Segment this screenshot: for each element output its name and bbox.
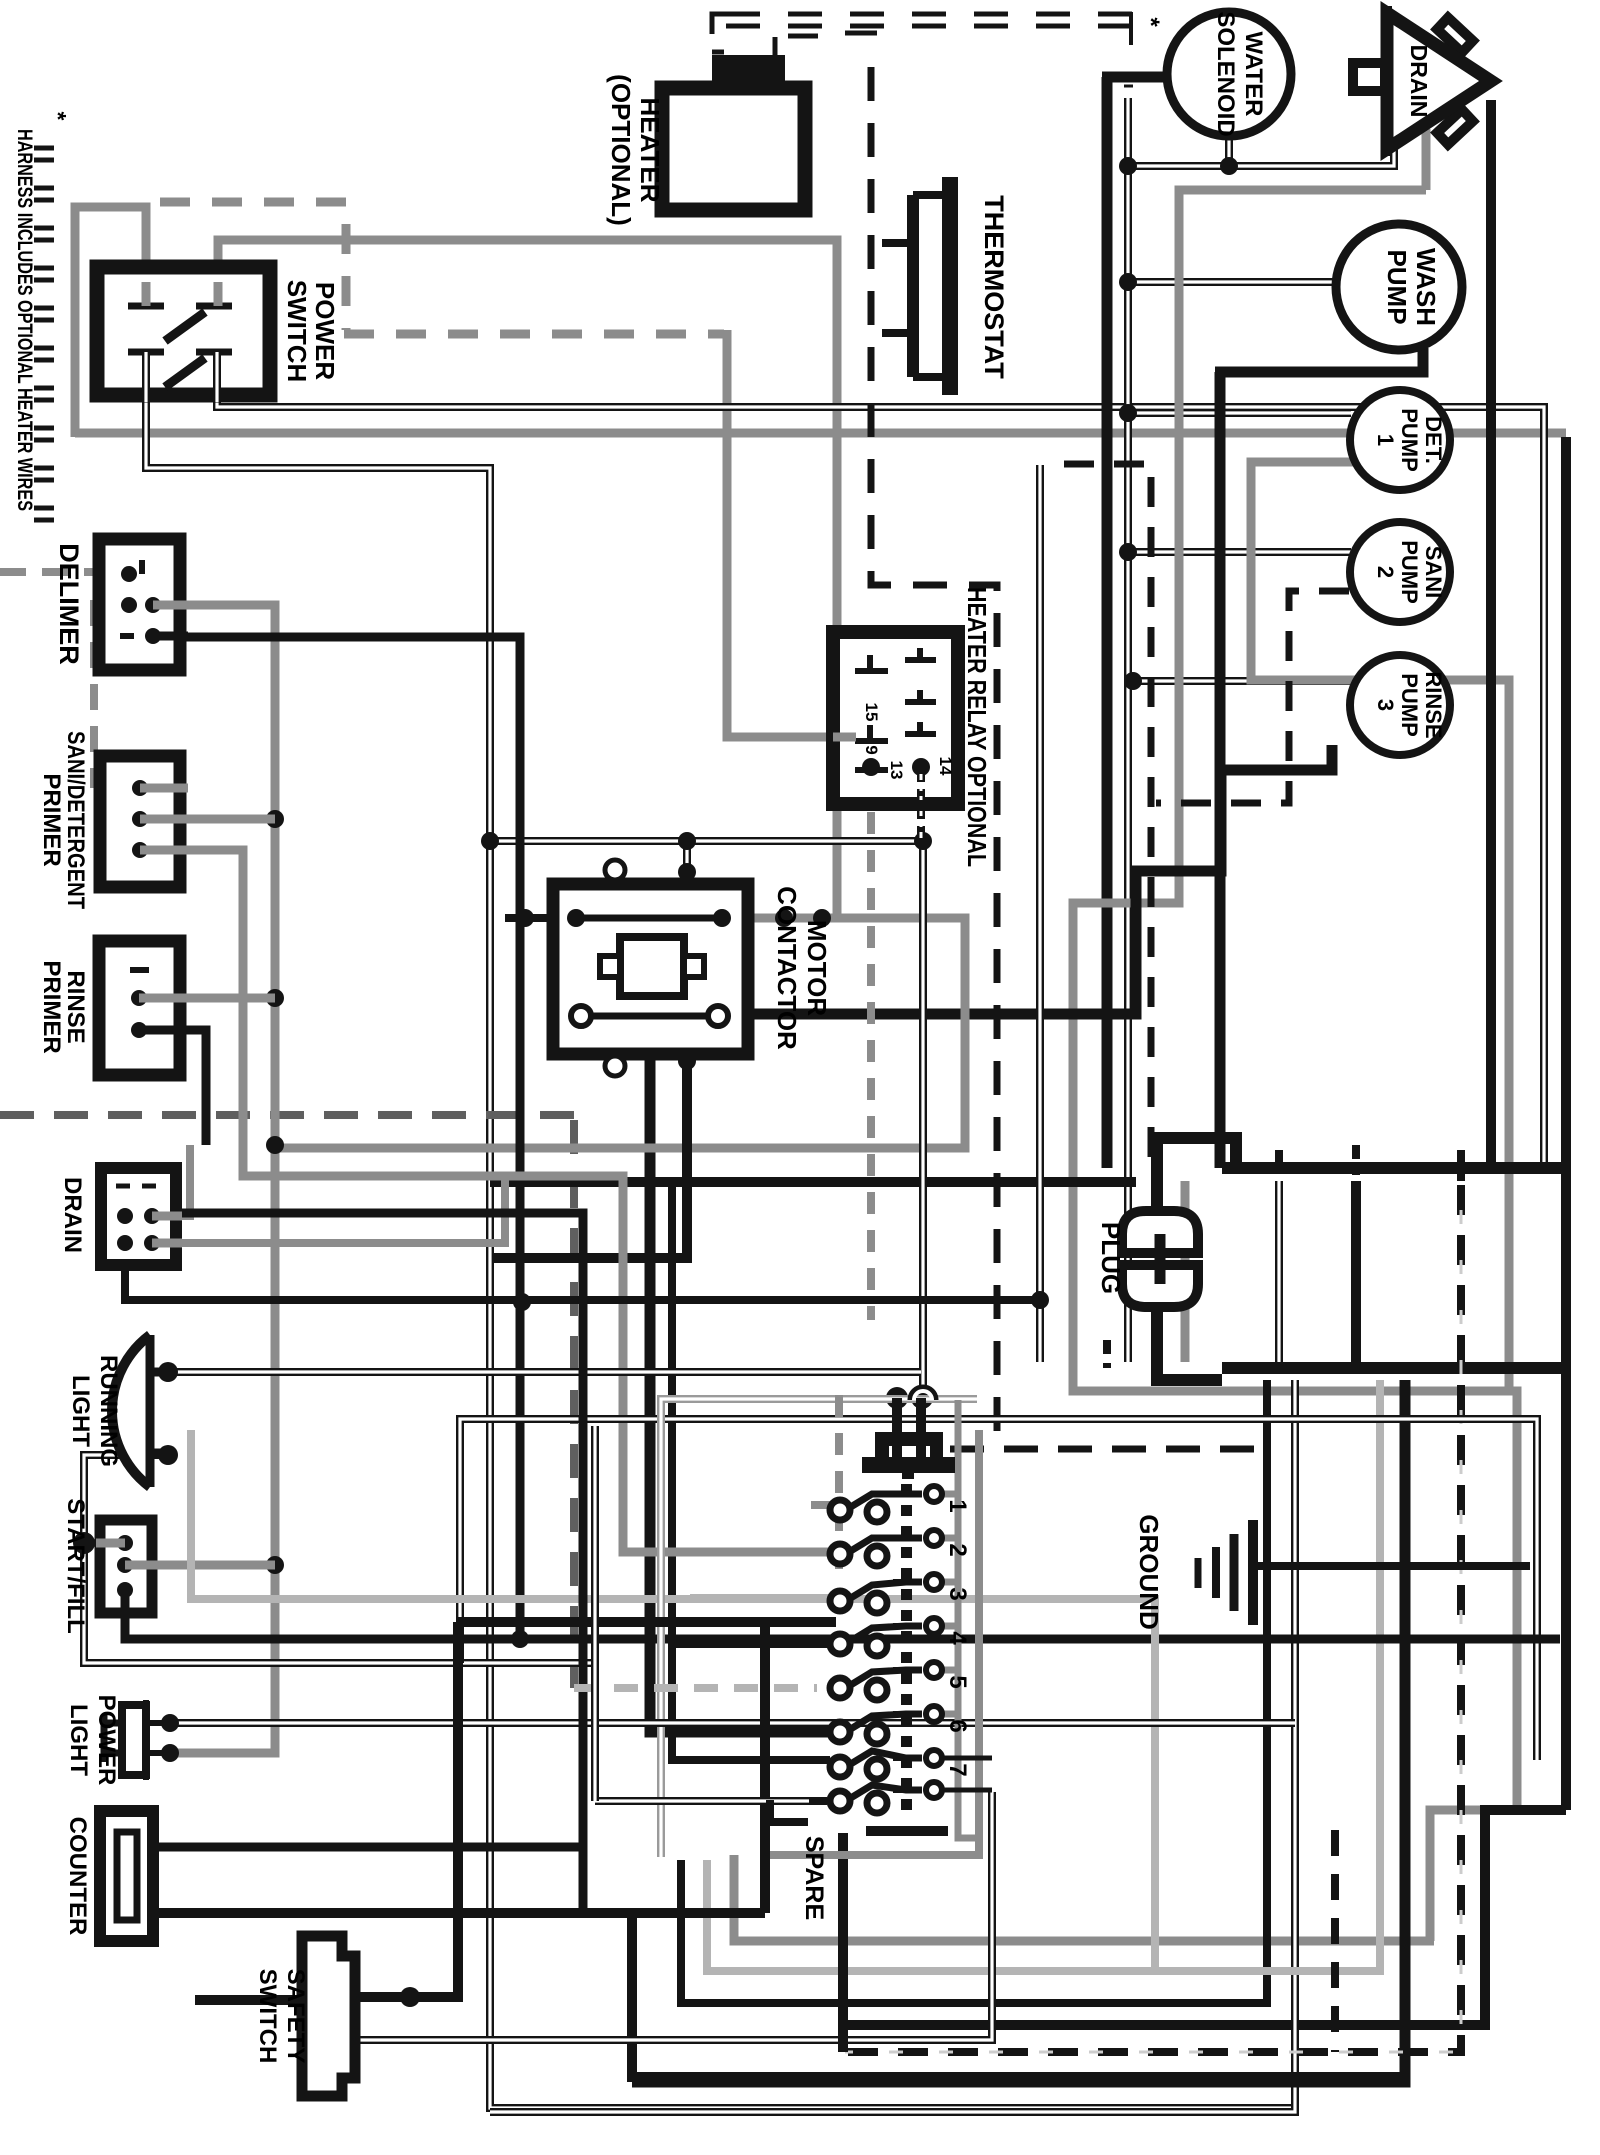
wire double contactor top stub: [683, 841, 691, 872]
wire gray bank taps: [941, 1494, 958, 1714]
timer contact bank: [911, 1388, 935, 1400]
wire double bank row8: [595, 1797, 827, 1805]
ground: [1248, 1520, 1258, 1625]
outline rect bank: [661, 1399, 977, 1857]
svg-text:SANI: SANI: [1421, 546, 1446, 599]
wire gray drain: [1422, 129, 1431, 190]
svg-text:THERMOSTAT: THERMOSTAT: [979, 195, 1009, 379]
svg-text:PRIMER: PRIMER: [38, 960, 65, 1053]
pin stub overlays: [96, 605, 188, 1565]
wire double switch right: [217, 352, 1544, 1168]
wire double x1295 nest: [490, 1380, 1295, 2112]
wire double x1040: [1036, 465, 1044, 1362]
wire med feeder y1178: [490, 1177, 1136, 1187]
svg-text:HEATER: HEATER: [635, 98, 665, 203]
svg-text:15: 15: [862, 703, 881, 722]
wire thick right outer: [838, 437, 1566, 2025]
bus ticks: [1107, 1150, 1461, 1368]
wire thick counter bottom: [153, 1913, 1405, 2077]
wire double x1279 between buses: [1275, 1181, 1283, 1362]
wire gray power-switch loop: [75, 207, 146, 437]
wire gray startfill pin2: [140, 1561, 275, 1570]
svg-text:RUNNING: RUNNING: [95, 1355, 122, 1467]
svg-text:SWITCH: SWITCH: [282, 280, 312, 383]
svg-text:7: 7: [944, 1763, 971, 1776]
drain: [1353, 6, 1491, 156]
wire thick trunk x1107: [1102, 77, 1167, 1168]
svg-text:RINSE: RINSE: [62, 970, 89, 1043]
wire gray sani pin2: [140, 815, 275, 824]
delimer connector: [99, 539, 180, 670]
wire med bank row7: [672, 1757, 830, 1764]
svg-text:3: 3: [944, 1587, 971, 1600]
wire thick bank left vert: [632, 1618, 765, 1913]
junction dot safety: [400, 1987, 420, 2007]
wire double branch det: [1128, 409, 1351, 417]
junction dot startfill: [73, 1532, 95, 1554]
wire gray contactor: [275, 918, 965, 1148]
junction dots contactor gray: [775, 909, 793, 927]
svg-text:2: 2: [1373, 566, 1398, 578]
svg-text:POWER: POWER: [93, 1695, 120, 1786]
svg-text:9: 9: [862, 745, 881, 754]
svg-text:DRAIN: DRAIN: [1406, 45, 1432, 118]
wire gray dashed power-switch box: [160, 202, 346, 330]
det pump 1: [1350, 390, 1450, 490]
wire med drainbox pin3: [125, 1265, 1040, 1300]
thermostat: [942, 177, 958, 395]
svg-text:START/FILL: START/FILL: [62, 1498, 89, 1634]
wire thick x843: [838, 1833, 848, 2052]
dashed harness middle line: [0, 1115, 574, 1688]
heater E1: [712, 55, 785, 88]
power light: [143, 1700, 149, 1780]
wire gray switch to thermostat: [218, 240, 837, 918]
svg-text:4: 4: [944, 1631, 971, 1645]
svg-text:PLUG: PLUG: [1096, 1222, 1126, 1294]
svg-text:SWITCH: SWITCH: [254, 1969, 281, 2064]
wire med drain y1213: [176, 1213, 583, 1913]
wire safety left stub: [195, 1995, 302, 2005]
wire thick x1405 nest: [632, 1380, 1405, 2082]
wire med bank row7 right: [941, 1758, 992, 1790]
svg-text:MOTOR: MOTOR: [802, 920, 832, 1017]
wire thick x1267 nest: [681, 1380, 1267, 2003]
svg-text:DELIMER: DELIMER: [54, 543, 84, 665]
motor contactor: [553, 884, 748, 1054]
rinse pump 3: [1350, 655, 1450, 755]
wire double powerlight pin1: [170, 1719, 1295, 1727]
dashed harness marks: [34, 148, 54, 520]
svg-text:14: 14: [936, 757, 955, 776]
running light: [112, 1335, 150, 1487]
svg-text:SAFETY: SAFETY: [282, 1969, 309, 2064]
junction dots y841: [678, 832, 696, 850]
wire gray x1380 nest: [707, 1380, 1380, 1971]
wire double switch lower-left: [146, 352, 1295, 2108]
wire double branch rinse: [1128, 677, 1351, 685]
svg-text:6: 6: [944, 1719, 971, 1732]
wire black delimer pin3: [153, 637, 520, 1639]
wire gray dash x871 below relay: [867, 812, 875, 1320]
wire double running light bottom: [84, 1455, 595, 1663]
wire gray drainbox pin1: [152, 1145, 190, 1216]
svg-text:*: *: [45, 112, 71, 121]
svg-text:2: 2: [944, 1543, 971, 1556]
wire dashed relay pin14: [917, 775, 925, 841]
junction dot drainbox: [1031, 1291, 1049, 1309]
svg-text:CONTACTOR: CONTACTOR: [772, 886, 802, 1050]
wire thick contactor bottom: [492, 1061, 687, 1258]
wire double safety 2: [355, 1792, 992, 2040]
svg-text:5: 5: [944, 1675, 971, 1688]
svg-text:PRIMER: PRIMER: [38, 773, 65, 866]
svg-text:3: 3: [1373, 699, 1398, 711]
svg-text:SANI/DETERGENT: SANI/DETERGENT: [62, 731, 89, 909]
wire gray delimer pin2: [153, 605, 275, 1753]
svg-text:PUMP: PUMP: [1397, 673, 1422, 737]
plug: [1122, 1211, 1198, 1253]
svg-text:*: *: [1137, 17, 1164, 27]
wire lightgray y1599: [191, 1430, 1155, 1971]
junction dots running light: [158, 1362, 178, 1382]
wire black rinse pin3: [139, 1030, 206, 1145]
wire gray x1185: [1181, 1181, 1190, 1362]
wire thick wash pump: [1215, 348, 1423, 372]
svg-text:POWER: POWER: [310, 282, 340, 380]
wire dashed sani pump: [1156, 591, 1349, 803]
wire gray powerlight pin2: [170, 1749, 275, 1758]
sani detergent primer: [100, 756, 180, 887]
safety switch: [302, 1936, 355, 2096]
plug top bus: [1157, 1138, 1570, 1211]
junction dot rl bottom: [158, 1445, 178, 1465]
svg-text:SOLENOID: SOLENOID: [1212, 11, 1239, 136]
dashed top harness line: [726, 14, 1132, 26]
svg-text:LIGHT: LIGHT: [67, 1375, 94, 1447]
wire double solenoid stem: [1225, 136, 1233, 166]
wire gray sani pin3: [140, 850, 832, 1552]
svg-text:1: 1: [1373, 434, 1398, 446]
wire double running light top: [168, 1368, 921, 1376]
heater pin marks: [712, 33, 877, 60]
svg-text:WASH: WASH: [1411, 248, 1441, 326]
svg-text:DRAIN: DRAIN: [59, 1177, 86, 1253]
svg-text:HARNESS INCLUDES OPTIONAL HEAT: HARNESS INCLUDES OPTIONAL HEATER WIRES: [13, 129, 36, 511]
wire thick counter top: [153, 1843, 583, 1852]
wire gray det pump: [1251, 462, 1509, 1391]
power switch S1: [97, 267, 270, 395]
wire black startfill pin3: [125, 1590, 1560, 1639]
wire dashed x1461 nest: [845, 1185, 1461, 2052]
wire med bank row4: [672, 1640, 834, 1648]
power switch pin stubs: [146, 282, 218, 306]
counter: [100, 1811, 153, 1941]
svg-text:13: 13: [887, 761, 906, 780]
wire contactor left stub: [505, 914, 556, 922]
svg-text:PUMP: PUMP: [1382, 249, 1412, 324]
wire ground: [1253, 1562, 1530, 1570]
svg-text:GROUND: GROUND: [1134, 1514, 1164, 1630]
svg-text:HEATER RELAY OPTIONAL: HEATER RELAY OPTIONAL: [962, 587, 992, 867]
wire gray startfill pin1: [84, 1539, 125, 1547]
heater relay: [833, 632, 958, 804]
wire thick rinse pump: [650, 745, 1332, 1732]
svg-text:LIGHT: LIGHT: [65, 1704, 92, 1776]
drain connector: [101, 1168, 176, 1265]
wire double branch wash: [1128, 278, 1337, 286]
wash pump: [1336, 224, 1462, 350]
junction dots trunk: [1119, 157, 1137, 175]
svg-text:(OPTIONAL): (OPTIONAL): [606, 74, 636, 226]
wire dashed x1335 stub: [1331, 1830, 1339, 2052]
wire gray rinse pin2: [140, 994, 275, 1003]
junction dots gray x275: [266, 810, 284, 828]
wire double branch drain: [1128, 149, 1394, 166]
wire thick y1622: [458, 1617, 836, 1627]
wire double y1419: [460, 1419, 1537, 1760]
sani pump 2: [1350, 522, 1450, 622]
wire double y841: [490, 837, 923, 845]
wire gray bank row1: [811, 1501, 831, 1509]
plug bottom bus: [1157, 1307, 1570, 1380]
svg-text:SPARE: SPARE: [800, 1836, 828, 1920]
svg-text:PUMP: PUMP: [1397, 540, 1422, 604]
wire double y841 relay: [919, 841, 927, 1388]
rinse primer: [99, 941, 180, 1075]
svg-text:PUMP: PUMP: [1397, 408, 1422, 472]
svg-text:COUNTER: COUNTER: [64, 1817, 91, 1936]
wire double trunk x1128: [1124, 98, 1132, 1362]
wire thick safety 1: [355, 1622, 458, 1997]
svg-text:RINSE: RINSE: [1421, 671, 1446, 738]
svg-text:WATER: WATER: [1240, 32, 1267, 117]
wire gray-dash delimer left: [0, 568, 99, 576]
wire dashed x1151: [1064, 464, 1151, 1168]
wire lightdash bank row5: [574, 1684, 817, 1692]
water solenoid: [1167, 12, 1291, 136]
dashed enclosure heater relay: [871, 67, 997, 1446]
wire thick drain apex: [1486, 100, 1496, 1168]
start fill connector: [100, 1520, 152, 1613]
svg-text:DET.: DET.: [1421, 416, 1446, 464]
wire gray bank row3 stub: [690, 1594, 832, 1602]
svg-text:1: 1: [944, 1499, 971, 1512]
wire gray drainbox pin2: [152, 1176, 505, 1243]
wire double branch sani: [1128, 548, 1351, 556]
